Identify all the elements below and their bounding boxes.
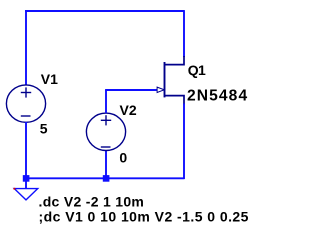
- wire left vertical upper (V1 plus to top rail): [25, 10, 27, 85]
- voltage source V2 body: [86, 113, 125, 150]
- wire bottom rail: [25, 177, 185, 179]
- wire gate horizontal (V2 to Q1 gate): [105, 89, 156, 91]
- svg-text:.dc V2 -2 1 10m: .dc V2 -2 1 10m: [39, 194, 145, 210]
- svg-text:Q1: Q1: [188, 62, 206, 78]
- svg-text:0: 0: [119, 150, 127, 166]
- wire V2 top vertical (V2 plus up to gate wire): [105, 90, 107, 113]
- wire right vertical lower (Q1 source to ground rail): [183, 104, 185, 180]
- svg-text:;dc V1 0 10 10m V2 -1.5 0 0.25: ;dc V1 0 10 10m V2 -1.5 0 0.25: [39, 209, 249, 225]
- junction node at V2 / ground rail: [103, 175, 110, 182]
- wire left vertical lower (V1 minus to ground rail): [25, 122, 27, 178]
- ground: [14, 181, 38, 200]
- svg-text:2N5484: 2N5484: [187, 88, 248, 105]
- Q1 source lead: [165, 96, 185, 105]
- wire right vertical upper (top rail to Q1 drain): [183, 10, 185, 57]
- wire V2 bottom (V2 minus to ground rail): [105, 151, 107, 178]
- svg-text:V1: V1: [41, 71, 58, 87]
- Q1 gate arrow: [157, 87, 164, 92]
- transistor Q1 (N-JFET): [157, 56, 185, 105]
- svg-text:V2: V2: [120, 102, 137, 118]
- Q1 drain lead: [165, 56, 185, 65]
- voltage source V1 body: [6, 85, 45, 122]
- junction node at V1 / ground: [23, 175, 30, 182]
- Q1 gate lead: [157, 89, 165, 91]
- svg-text:5: 5: [40, 121, 48, 137]
- wire top rail: [25, 10, 184, 12]
- Q1 channel bar: [164, 62, 166, 97]
